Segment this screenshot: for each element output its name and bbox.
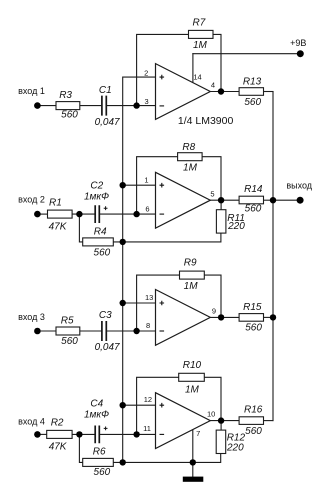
wire: junction drop to R6 xyxy=(79,434,82,462)
wire: R15 to output bus xyxy=(264,316,274,318)
resistor R11 220 xyxy=(216,210,226,233)
svg-text:R4: R4 xyxy=(94,227,107,238)
resistor R7 1M xyxy=(189,30,214,38)
terminal vhod 3 xyxy=(34,328,41,335)
wire: opamp3 output to R15 xyxy=(210,316,239,318)
wire: R8 right lead and riser to output node xyxy=(202,157,221,201)
op-amp U1C minus sign xyxy=(160,330,165,332)
svg-text:R8: R8 xyxy=(182,142,195,153)
capacitor C1 plates xyxy=(102,96,106,116)
svg-text:R5: R5 xyxy=(61,315,74,326)
svg-text:560: 560 xyxy=(94,467,111,478)
svg-text:560: 560 xyxy=(244,97,261,108)
svg-text:C3: C3 xyxy=(99,310,112,321)
terminal +9V xyxy=(297,50,304,57)
wire: C1 to pin 3 of op-amp xyxy=(107,105,156,107)
wire: opamp4 output to R16 xyxy=(210,420,239,422)
op-amp U1A plus sign xyxy=(160,75,165,80)
svg-text:R7: R7 xyxy=(193,18,206,29)
node: output bus at R14 xyxy=(270,197,276,203)
svg-text:R1: R1 xyxy=(49,198,62,209)
svg-text:10: 10 xyxy=(207,409,215,418)
node: R1 C2 junction xyxy=(76,211,82,217)
wire: junction drop to R4 xyxy=(79,214,82,242)
wire: opamp1 output to R13 xyxy=(210,91,239,93)
wire: input3 to R5 xyxy=(37,330,56,332)
wire: output node to R12 top xyxy=(220,421,222,431)
svg-text:1мкФ: 1мкФ xyxy=(84,192,109,203)
svg-text:12: 12 xyxy=(144,395,152,404)
terminal vhod 1 xyxy=(34,102,41,109)
wire: output node to R11 top xyxy=(220,200,222,210)
wire: R8 left lead and riser to pin6 node xyxy=(137,157,178,214)
svg-text:0,047: 0,047 xyxy=(95,117,120,128)
svg-text:220: 220 xyxy=(227,221,245,232)
node: pin 13 bus tap xyxy=(120,300,126,306)
svg-text:R14: R14 xyxy=(244,184,263,195)
wire: R10 right lead and riser to output node xyxy=(204,377,221,420)
op-amp U1C plus sign xyxy=(160,301,165,306)
wire: pin 7 drop xyxy=(192,429,194,462)
capacitor C2 polarity plus xyxy=(104,206,108,210)
resistor R8 1M xyxy=(178,153,203,161)
svg-text:R10: R10 xyxy=(183,360,202,371)
svg-text:560: 560 xyxy=(94,248,111,259)
svg-text:560: 560 xyxy=(61,336,78,347)
terminal vyhod xyxy=(297,197,304,204)
svg-text:R6: R6 xyxy=(93,447,106,458)
svg-text:47K: 47K xyxy=(49,222,68,233)
svg-text:C2: C2 xyxy=(90,181,103,192)
wire: R4 to R11 bottom riser xyxy=(113,233,221,242)
wire: input1 to R3 xyxy=(37,105,56,107)
wire: R2 to C4 xyxy=(72,433,94,435)
svg-text:вход 2: вход 2 xyxy=(18,194,45,204)
svg-text:R2: R2 xyxy=(51,417,64,428)
wire: R5 to C3 xyxy=(80,330,102,332)
node: ground bus tap xyxy=(120,459,126,465)
svg-text:7: 7 xyxy=(196,429,200,438)
op-amp U1B plus sign xyxy=(160,183,165,188)
node: opamp3 output xyxy=(218,314,224,320)
op-amp U1A minus sign xyxy=(160,105,165,107)
svg-text:1M: 1M xyxy=(193,40,208,51)
svg-text:1/4 LM3900: 1/4 LM3900 xyxy=(178,115,234,127)
svg-text:2: 2 xyxy=(144,68,148,77)
resistor R10 1M xyxy=(179,373,205,381)
svg-text:выход: выход xyxy=(286,180,312,190)
svg-text:R3: R3 xyxy=(59,90,72,101)
capacitor C3 plates xyxy=(102,321,106,341)
wire: pin 13 line xyxy=(123,302,156,304)
wire: output bus to vyhod terminal xyxy=(273,199,300,201)
wire: R1 to C2 xyxy=(72,213,94,215)
node: opamp2 output xyxy=(218,197,224,203)
svg-text:220: 220 xyxy=(226,442,244,453)
wire: input2 to R1 xyxy=(37,213,47,215)
resistor R6 560 xyxy=(83,458,114,466)
wire: pin 14 riser xyxy=(192,54,194,83)
resistor R12 220 xyxy=(216,430,226,453)
capacitor C4 plates xyxy=(95,426,99,444)
op-amp U1D minus sign xyxy=(160,433,165,435)
resistor R5 560 xyxy=(56,327,80,335)
svg-text:R9: R9 xyxy=(184,258,197,269)
node: pin 7 ground junction xyxy=(190,459,196,465)
wire: R14 to output bus xyxy=(264,199,274,201)
svg-text:4: 4 xyxy=(211,80,215,89)
resistor R2 47K xyxy=(47,430,72,438)
svg-text:5: 5 xyxy=(210,189,214,198)
wire: ground stem xyxy=(192,462,194,477)
wire: R7 left lead and riser to pin3 node xyxy=(137,34,189,105)
svg-text:560: 560 xyxy=(245,323,262,334)
svg-text:R15: R15 xyxy=(243,302,262,313)
node: R9 to pin 8 xyxy=(133,328,139,334)
node: opamp1 output xyxy=(218,88,224,94)
wire: C2 to pin 6 of op-amp xyxy=(100,213,155,215)
svg-text:14: 14 xyxy=(193,72,201,81)
node: R2 C4 junction xyxy=(76,431,82,437)
resistor R13 560 xyxy=(239,88,263,96)
op-amp U1D plus sign xyxy=(160,403,165,408)
wire: +9V rail from pin14 riser to terminal xyxy=(193,53,300,55)
wire: pin 2 line and noninverting bus xyxy=(123,77,156,462)
wire: R13 to output bus corner xyxy=(264,91,274,93)
node: output bus at R15 xyxy=(270,314,276,320)
op-amp U1C triangle xyxy=(156,290,211,346)
wire: pin 1 line xyxy=(123,184,156,186)
svg-text:R13: R13 xyxy=(243,76,262,87)
op-amp U1A triangle xyxy=(156,64,211,120)
svg-text:вход 4: вход 4 xyxy=(18,416,45,426)
resistor R1 47K xyxy=(48,210,73,218)
resistor R14 560 xyxy=(239,196,263,204)
svg-text:6: 6 xyxy=(145,205,149,214)
svg-text:1M: 1M xyxy=(185,384,200,395)
wire: C4 to pin 11 of op-amp xyxy=(100,433,155,435)
wire: R10 left lead and riser to pin11 node xyxy=(137,377,179,434)
node: R8 to pin 6 xyxy=(133,211,139,217)
svg-text:9: 9 xyxy=(212,307,216,316)
svg-text:C4: C4 xyxy=(90,399,103,410)
svg-text:560: 560 xyxy=(245,204,262,215)
svg-text:вход 1: вход 1 xyxy=(18,86,45,96)
resistor R4 560 xyxy=(83,238,114,246)
op-amp U1D triangle xyxy=(156,393,211,449)
svg-text:47K: 47K xyxy=(49,442,68,453)
wire: opamp2 output to R14 xyxy=(210,199,239,201)
svg-text:1M: 1M xyxy=(184,281,199,292)
resistor R9 1M xyxy=(180,271,205,279)
svg-text:560: 560 xyxy=(245,426,262,437)
svg-text:C1: C1 xyxy=(99,85,112,96)
wire: R6 to ground rail and R12 riser xyxy=(113,454,220,463)
wire: pin 12 line xyxy=(123,404,156,406)
svg-text:560: 560 xyxy=(61,110,78,121)
wire: R9 right lead and riser to output node xyxy=(204,275,221,317)
svg-text:1M: 1M xyxy=(183,163,198,174)
svg-text:1мкФ: 1мкФ xyxy=(84,410,109,421)
svg-text:0,047: 0,047 xyxy=(95,342,120,353)
svg-text:R16: R16 xyxy=(244,405,263,416)
terminal vhod 2 xyxy=(34,211,41,218)
resistor R3 560 xyxy=(56,102,80,110)
node: R10 to pin 11 xyxy=(133,431,139,437)
node: opamp4 output xyxy=(218,417,224,423)
svg-text:1: 1 xyxy=(144,175,148,184)
wire: R3 to C1 xyxy=(80,105,102,107)
capacitor C4 polarity plus xyxy=(104,427,108,431)
node: pin 1 bus tap xyxy=(120,182,126,188)
svg-text:11: 11 xyxy=(143,424,151,433)
resistor R15 560 xyxy=(239,314,263,322)
op-amp U1B triangle xyxy=(156,172,211,228)
node: bias line bus tap xyxy=(120,239,126,245)
resistor R16 560 xyxy=(239,417,263,425)
svg-text:вход 3: вход 3 xyxy=(18,312,45,322)
wire: R16 to output bus xyxy=(264,420,274,422)
wire: output bus vertical xyxy=(272,92,274,421)
capacitor C2 plates xyxy=(95,205,99,223)
wire: C3 to pin 8 of op-amp xyxy=(107,330,156,332)
ground symbol xyxy=(183,477,204,482)
svg-text:+9В: +9В xyxy=(290,38,306,48)
node: R7 to pin 3 xyxy=(133,102,139,108)
svg-text:13: 13 xyxy=(145,293,153,302)
terminal vhod 4 xyxy=(34,431,41,438)
svg-text:8: 8 xyxy=(146,321,150,330)
wire: input4 to R2 xyxy=(37,433,46,435)
wire: R9 left lead and riser to pin8 node xyxy=(137,275,180,331)
node: pin 12 bus tap xyxy=(120,402,126,408)
svg-text:3: 3 xyxy=(145,97,149,106)
wire: R7 right lead and riser to output node xyxy=(213,34,221,91)
op-amp U1B minus sign xyxy=(160,213,165,215)
